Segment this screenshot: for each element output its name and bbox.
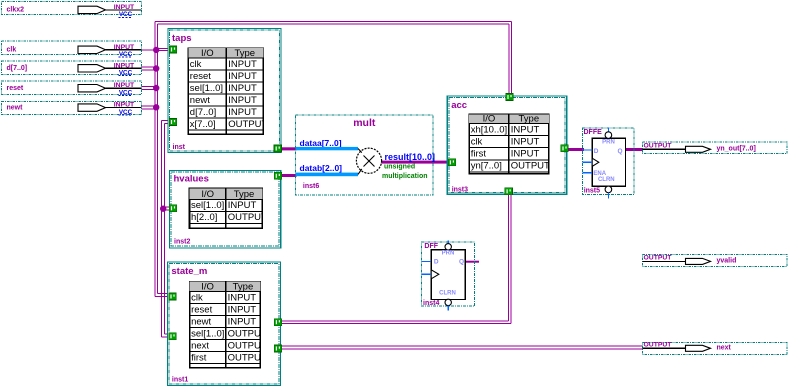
svg-text:d[7..0]: d[7..0] <box>7 65 28 72</box>
svg-text:INPUT: INPUT <box>114 44 135 51</box>
svg-text:inst3: inst3 <box>452 186 468 193</box>
svg-text:Q: Q <box>459 258 464 265</box>
svg-text:yn_out[7..0]: yn_out[7..0] <box>717 146 756 153</box>
svg-text:inst: inst <box>173 144 186 151</box>
svg-text:D: D <box>434 258 439 265</box>
svg-text:INPUT: INPUT <box>228 59 257 70</box>
svg-text:inst4: inst4 <box>423 300 439 307</box>
svg-text:CLRN: CLRN <box>598 177 615 183</box>
svg-text:OUTPUT: OUTPUT <box>644 342 673 349</box>
svg-text:clk: clk <box>190 59 202 70</box>
svg-text:Q: Q <box>618 148 623 155</box>
svg-text:sel[1..0]: sel[1..0] <box>190 83 223 94</box>
svg-text:reset: reset <box>191 304 212 315</box>
svg-text:taps: taps <box>172 33 192 44</box>
svg-text:h[2..0]: h[2..0] <box>191 212 217 223</box>
svg-text:INPUT: INPUT <box>114 82 135 89</box>
svg-text:multiplication: multiplication <box>382 173 428 180</box>
svg-text:OUTPUT: OUTPUT <box>228 119 267 130</box>
svg-text:Type: Type <box>234 189 255 200</box>
svg-text:d[7..0]: d[7..0] <box>190 107 216 118</box>
svg-text:mult: mult <box>353 117 376 129</box>
svg-text:Type: Type <box>519 113 540 124</box>
svg-text:sel[1..0]: sel[1..0] <box>191 200 224 211</box>
svg-text:Type: Type <box>233 281 254 292</box>
svg-text:inst2: inst2 <box>174 239 190 246</box>
svg-text:inst5: inst5 <box>584 187 600 194</box>
svg-text:INPUT: INPUT <box>228 292 257 303</box>
svg-text:OUTPUT: OUTPUT <box>644 255 673 262</box>
svg-text:hvalues: hvalues <box>174 173 209 184</box>
svg-text:yvalid: yvalid <box>717 258 737 265</box>
svg-text:PRN: PRN <box>442 251 455 257</box>
svg-text:I/O: I/O <box>201 189 214 200</box>
svg-text:Type: Type <box>234 48 255 59</box>
svg-text:I/O: I/O <box>483 113 496 124</box>
svg-text:newt: newt <box>190 95 210 106</box>
svg-text:dataa[7..0]: dataa[7..0] <box>300 138 342 148</box>
svg-text:INPUT: INPUT <box>511 149 540 160</box>
svg-text:PRN: PRN <box>602 140 615 146</box>
svg-text:first: first <box>471 149 487 160</box>
svg-text:INPUT: INPUT <box>228 107 257 118</box>
svg-text:sel[1..0]: sel[1..0] <box>191 328 224 339</box>
svg-text:clkx2: clkx2 <box>7 7 25 14</box>
svg-text:newt: newt <box>7 104 24 111</box>
svg-text:INPUT: INPUT <box>511 137 540 148</box>
svg-text:clk: clk <box>191 292 203 303</box>
svg-text:OUTPUT: OUTPUT <box>511 161 550 172</box>
svg-text:datab[2..0]: datab[2..0] <box>300 163 343 173</box>
svg-text:I/O: I/O <box>201 281 214 292</box>
svg-text:first: first <box>191 352 207 363</box>
svg-text:acc: acc <box>451 100 467 111</box>
svg-text:OUTPUT: OUTPUT <box>644 143 673 150</box>
svg-text:DFFE: DFFE <box>584 129 603 136</box>
svg-text:I/O: I/O <box>201 48 214 59</box>
svg-text:INPUT: INPUT <box>114 102 135 109</box>
svg-text:INPUT: INPUT <box>228 71 257 82</box>
svg-text:INPUT: INPUT <box>228 95 257 106</box>
svg-text:INPUT: INPUT <box>114 62 135 69</box>
svg-text:inst6: inst6 <box>303 183 319 190</box>
svg-text:INPUT: INPUT <box>114 4 135 11</box>
svg-text:next: next <box>717 345 732 352</box>
svg-text:reset: reset <box>190 71 211 82</box>
svg-text:newt: newt <box>191 316 211 327</box>
svg-text:reset: reset <box>7 85 24 92</box>
svg-text:xh[10..0]: xh[10..0] <box>471 124 507 135</box>
svg-text:INPUT: INPUT <box>228 200 257 211</box>
svg-text:yn[7..0]: yn[7..0] <box>471 161 502 172</box>
svg-text:INPUT: INPUT <box>228 304 257 315</box>
svg-text:INPUT: INPUT <box>228 316 257 327</box>
svg-text:inst1: inst1 <box>172 377 188 384</box>
svg-text:next: next <box>191 340 209 351</box>
svg-text:clk: clk <box>7 47 17 54</box>
svg-text:OUTPUT: OUTPUT <box>228 212 267 223</box>
svg-text:clk: clk <box>471 137 483 148</box>
svg-text:D: D <box>594 148 599 155</box>
svg-text:INPUT: INPUT <box>511 124 540 135</box>
svg-text:INPUT: INPUT <box>228 83 257 94</box>
svg-text:x[7..0]: x[7..0] <box>190 119 216 130</box>
svg-text:CLRN: CLRN <box>439 291 456 297</box>
svg-text:state_m: state_m <box>171 266 207 277</box>
svg-text:DFF: DFF <box>424 243 438 250</box>
svg-text:unsigned: unsigned <box>384 163 415 170</box>
svg-text:result[10..0]: result[10..0] <box>385 152 436 162</box>
